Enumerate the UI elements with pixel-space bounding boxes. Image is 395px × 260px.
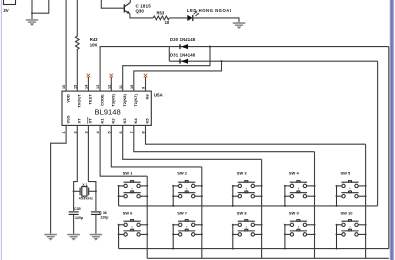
wire R43 to pin 15 xyxy=(76,51,78,92)
svg-text:T1(K7): T1(K7) xyxy=(133,94,138,107)
wire pin7 K4 to column 4 xyxy=(134,125,315,151)
wire pin3 XTbar down xyxy=(88,125,96,211)
wire line A right vertical to row 2 xyxy=(388,47,390,249)
svg-text:R43: R43 xyxy=(90,37,98,42)
svg-text:SW 4: SW 4 xyxy=(289,170,300,175)
ground xyxy=(44,234,57,241)
svg-text:K3: K3 xyxy=(122,118,127,124)
wire pin13 CODE riser and line A xyxy=(100,47,389,92)
svg-text:K1: K1 xyxy=(99,118,104,124)
wire battery negative to ground xyxy=(31,0,49,19)
svg-text:120p: 120p xyxy=(75,216,84,220)
svg-text:K6: K6 xyxy=(145,93,150,99)
ground xyxy=(90,234,103,241)
wire base riser xyxy=(101,0,124,8)
svg-text:SW 2: SW 2 xyxy=(177,170,188,175)
wire pin5 K2 to column 2 xyxy=(111,125,202,166)
ground xyxy=(26,19,39,26)
switch SW 3 xyxy=(232,170,263,206)
wire drop to pin 11 T2 xyxy=(123,47,210,92)
wire VDD rail to pin 16 xyxy=(65,0,67,91)
wire pin4 K1 to column 1 xyxy=(100,125,147,176)
wire column 4 vertical xyxy=(314,152,316,259)
pin numbers top xyxy=(62,84,145,89)
battery BT1 3V xyxy=(4,0,16,5)
wire line B right vertical to row 1 xyxy=(377,61,379,206)
svg-text:X 1: X 1 xyxy=(82,183,87,187)
svg-text:VSS: VSS xyxy=(65,115,70,123)
LED D29 infrared xyxy=(187,11,199,21)
pin names bottom row xyxy=(65,115,149,124)
wire emitter down xyxy=(130,14,153,18)
wire collector to rail xyxy=(129,0,131,3)
node junction line B to T1 drop xyxy=(220,60,222,62)
ground xyxy=(67,234,80,241)
capacitor C36 120p xyxy=(91,212,101,234)
svg-text:13: 13 xyxy=(96,85,100,89)
ground xyxy=(233,22,246,29)
wire pin6 K3 to column 3 xyxy=(123,125,262,159)
svg-text:10: 10 xyxy=(165,20,170,25)
svg-text:3: 3 xyxy=(85,131,89,133)
svg-text:Q30: Q30 xyxy=(136,8,145,13)
svg-text:C 36: C 36 xyxy=(99,211,107,215)
switch blocks inserted here xyxy=(118,170,367,248)
IC U5A BL9148 xyxy=(62,91,151,125)
svg-text:12: 12 xyxy=(107,85,111,89)
svg-text:K4: K4 xyxy=(133,118,138,124)
switch SW 5 xyxy=(336,170,367,206)
diode D30 1N4148 xyxy=(180,44,188,49)
svg-text:11: 11 xyxy=(119,85,123,89)
svg-text:SW 6: SW 6 xyxy=(123,211,134,216)
switch SW 1 xyxy=(118,170,149,206)
svg-text:VDD: VDD xyxy=(65,94,70,103)
wire pin1 VSS to ground xyxy=(51,125,67,233)
wire TXOUT rail upper xyxy=(76,0,78,35)
svg-text:SW 1: SW 1 xyxy=(123,170,134,175)
svg-text:TEST: TEST xyxy=(88,94,93,105)
svg-text:SW 5: SW 5 xyxy=(341,170,352,175)
wire column 5 vertical xyxy=(365,144,367,258)
wire bottom rail xyxy=(147,257,389,259)
wire row line T1 xyxy=(119,205,378,207)
svg-text:T3(K9): T3(K9) xyxy=(111,94,116,107)
switch SW 6 xyxy=(118,211,149,249)
svg-text:XT: XT xyxy=(88,118,93,124)
svg-text:D30 1N4148: D30 1N4148 xyxy=(170,37,196,42)
svg-text:8: 8 xyxy=(142,131,146,133)
svg-text:K5: K5 xyxy=(145,118,150,124)
svg-text:R53: R53 xyxy=(157,11,165,16)
svg-text:XT: XT xyxy=(77,118,82,124)
switch SW 2 xyxy=(172,170,203,206)
svg-text:10K: 10K xyxy=(90,42,98,47)
switch SW 10 xyxy=(336,211,367,249)
svg-text:5: 5 xyxy=(107,131,111,133)
svg-text:3V: 3V xyxy=(3,8,8,13)
svg-text:SW 7: SW 7 xyxy=(177,211,188,216)
crystal X1 455KHz xyxy=(73,187,97,197)
svg-text:SW 10: SW 10 xyxy=(341,211,354,216)
wire R53 to LED xyxy=(169,17,187,19)
switch SW 8 xyxy=(232,211,263,249)
svg-text:U5A: U5A xyxy=(154,92,164,97)
wire line B D31 xyxy=(169,60,377,62)
svg-text:2: 2 xyxy=(73,131,77,133)
svg-text:BL9148: BL9148 xyxy=(95,108,121,117)
capacitor C35 120p xyxy=(69,212,79,234)
no-connect pin 12 xyxy=(110,74,114,91)
wire pin8 K5 to column 5 xyxy=(146,125,366,144)
border left xyxy=(1,0,2,260)
pin labels group xyxy=(62,84,150,134)
svg-text:CODE: CODE xyxy=(99,94,104,106)
svg-text:SW 3: SW 3 xyxy=(237,170,248,175)
svg-text:D31 1N4148: D31 1N4148 xyxy=(170,52,196,57)
switch SW 7 xyxy=(172,211,203,249)
pin names top row xyxy=(65,93,149,107)
svg-text:TXOUT: TXOUT xyxy=(77,94,82,108)
svg-text:120p: 120p xyxy=(100,216,109,220)
switch SW 4 xyxy=(284,170,316,206)
svg-text:1: 1 xyxy=(62,131,66,133)
wire pin2 XT down xyxy=(74,125,78,211)
resistor R43 10K xyxy=(76,35,80,51)
node row2 junctions xyxy=(172,248,337,250)
svg-text:16: 16 xyxy=(62,85,66,89)
pin numbers bottom xyxy=(62,131,145,134)
svg-text:9: 9 xyxy=(142,87,146,89)
wire column 2 vertical xyxy=(201,167,203,258)
wire column 3 vertical xyxy=(261,159,263,258)
wire drop to pin 10 T1 xyxy=(134,61,222,91)
wire LED cathode to ground xyxy=(193,18,239,22)
svg-text:6: 6 xyxy=(119,131,123,133)
diode D31 1N4148 xyxy=(180,59,188,64)
svg-text:LED HONG NGOAI: LED HONG NGOAI xyxy=(187,8,232,13)
no-connect pin 14 xyxy=(87,74,91,91)
svg-text:SW 9: SW 9 xyxy=(289,211,300,216)
border right xyxy=(390,0,395,260)
svg-text:455KHz: 455KHz xyxy=(79,197,93,201)
wire column 1 vertical xyxy=(146,176,148,258)
svg-text:C35: C35 xyxy=(74,207,81,211)
no-connect pin 9 xyxy=(144,74,148,91)
svg-text:T2(K8): T2(K8) xyxy=(122,94,127,107)
transistor Q30 C1815 xyxy=(124,3,130,14)
svg-text:7: 7 xyxy=(130,131,134,133)
svg-text:SW 8: SW 8 xyxy=(237,211,248,216)
svg-text:K2: K2 xyxy=(111,118,116,124)
node junction line A to T2 drop xyxy=(209,46,211,48)
svg-text:15: 15 xyxy=(73,85,77,89)
wire row line T2 xyxy=(119,248,389,250)
svg-text:10: 10 xyxy=(130,85,134,89)
resistor R53 10 xyxy=(153,16,169,20)
node row1 junctions xyxy=(172,205,337,207)
switch SW 9 xyxy=(284,211,316,249)
wire stub line A to D31 cathode line xyxy=(168,47,170,62)
